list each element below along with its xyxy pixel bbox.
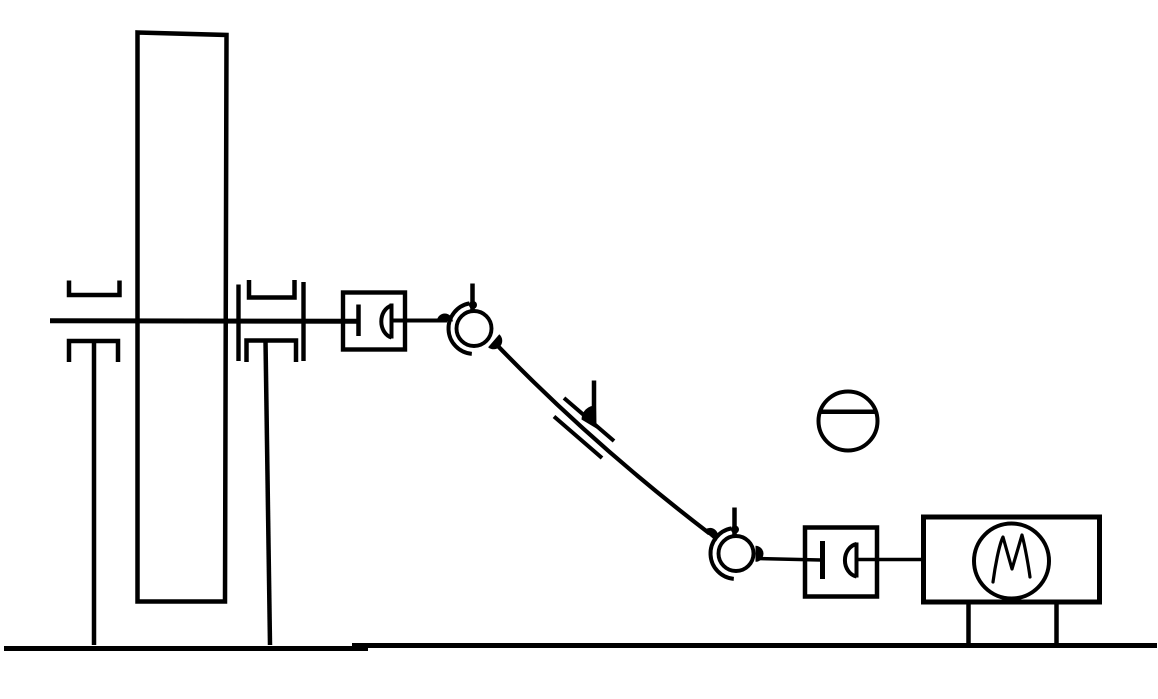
intermediate bearing wedge [581,405,596,428]
motor pedestal left leg [966,603,971,646]
flange line left of bearing B2 [236,285,240,362]
bearing B2 pedestal stem [266,341,271,646]
ground line right segment [352,643,1157,648]
shaft segment K1 to U1 [392,319,448,323]
coupling K2 box [805,528,877,597]
shaft segment left (wheel shaft) [50,318,358,323]
intermediate bearing hatch line lower [554,417,602,459]
gauge chord line [820,410,876,415]
intermediate bearing hatch line upper [564,398,614,441]
coupling K2 bar [820,541,825,579]
ground line left segment [4,646,368,651]
universal joint U1 outer arc [449,303,472,354]
coupling K1 bar [356,305,361,337]
intermediate bearing pin [592,381,597,426]
universal joint U2 circle [719,536,754,571]
shaft segment U2 to K2 [757,559,821,561]
coupling K1 box [343,293,405,350]
motor M1 housing [924,517,1100,602]
coupling K2 half-moon flat edge [855,543,859,578]
coupling K1 half-moon arc [381,306,391,338]
node dot upper-left of U2 [704,528,718,541]
motor M1 letter M [993,535,1030,582]
bearing B1 lower bracket [69,341,118,362]
node dot left of U1 [437,314,453,322]
universal joint U1 top pin [470,284,475,312]
node dot lower-right of U1 [488,334,502,349]
coupling K2 half-moon arc [845,544,857,577]
flange line right of bearing B2 [301,282,305,361]
shaft segment K2 to motor [857,558,925,562]
inclined cardan shaft [495,343,710,534]
bearing B2 lower bracket [247,341,297,363]
motor pedestal right leg [1054,603,1059,646]
wheel W1 (tall platen) [138,33,227,602]
universal joint U1 circle [457,311,492,346]
universal joint U2 pin dot [731,526,739,534]
node dot right of U2 [756,546,764,562]
universal joint U2 top pin [732,508,737,536]
bearing B2 upper bracket [249,280,295,298]
gauge circle symbol [819,392,878,451]
universal joint U2 outer arc [711,528,734,579]
bearing B1 pedestal stem [92,341,97,645]
bearing B1 upper bracket [69,281,120,296]
motor M1 circle [974,524,1049,599]
coupling K1 half-moon flat edge [390,304,394,339]
universal joint U1 pin dot [469,301,477,309]
